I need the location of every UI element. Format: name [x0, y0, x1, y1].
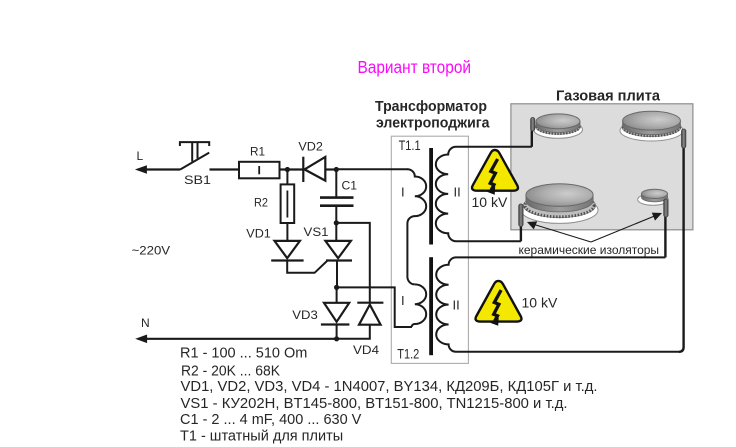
electrode burner3 — [519, 204, 523, 227]
transformer T1.1 core — [429, 148, 433, 245]
electrode burner2 — [682, 129, 686, 148]
svg-text:Трансформатор: Трансформатор — [375, 99, 487, 115]
svg-text:I: I — [401, 293, 405, 308]
wire C1 to VS1 — [335, 206, 337, 241]
resistor R2 — [281, 184, 295, 223]
wire SB1 to R1 — [210, 168, 240, 170]
svg-text:T1.1: T1.1 — [399, 138, 421, 153]
winding T1.2 primary — [412, 284, 427, 327]
svg-text:SB1: SB1 — [184, 173, 211, 187]
svg-text:II: II — [453, 298, 460, 313]
wire node D to T1.2 primary — [337, 287, 412, 327]
electrode burner4 — [664, 199, 668, 217]
thyristor VS1 — [325, 241, 352, 261]
svg-text:VD2: VD2 — [298, 140, 323, 154]
svg-text:C1 - 2 ... 4 mF, 400 ... 630: C1 - 2 ... 4 mF, 400 ... 630 V — [180, 412, 362, 428]
wire node D to VD3 — [336, 287, 338, 302]
arrow to burner4 electrode — [591, 215, 657, 242]
wire VD3 to N rail — [336, 325, 338, 339]
svg-text:II: II — [454, 185, 461, 200]
svg-text:N: N — [141, 316, 150, 330]
wire T1.1 secondary bottom to burner3 electrode — [520, 226, 522, 241]
node junction C — [334, 220, 339, 225]
svg-text:L: L — [137, 149, 144, 163]
svg-text:R1: R1 — [250, 145, 265, 159]
wire N rail — [144, 338, 337, 340]
wire node B to C1 — [335, 170, 337, 198]
svg-text:VD4: VD4 — [353, 343, 379, 357]
wire node B to T1.1 primary — [336, 168, 408, 170]
svg-text:T1 - штатный для плиты: T1 - штатный для плиты — [180, 429, 343, 445]
node junction B — [334, 167, 339, 172]
svg-text:VD3: VD3 — [292, 308, 318, 322]
wire node C to VD4 branch — [336, 223, 370, 303]
gas stove panel — [511, 104, 693, 230]
svg-text:керамические изоляторы: керамические изоляторы — [519, 243, 660, 257]
wire R2 to VD1 — [286, 223, 288, 240]
svg-text:~220V: ~220V — [132, 244, 171, 258]
burner bottom-left — [521, 184, 598, 224]
switch SB1 — [180, 142, 209, 170]
node N arrow — [137, 335, 147, 342]
warning sign 10kV upper — [472, 150, 518, 195]
svg-text:T1.2: T1.2 — [397, 347, 419, 362]
node junction D — [334, 285, 339, 290]
capacitor C1 — [320, 198, 354, 206]
wire VD1 cathode to VS1 gate — [287, 261, 327, 273]
svg-text:I: I — [401, 185, 405, 200]
svg-text:R1 - 100 ... 510 Om: R1 - 100 ... 510 Om — [180, 345, 307, 361]
svg-text:VS1 - КУ202Н, BT145-800, BT15: VS1 - КУ202Н, BT145-800, BT151-800, TN12… — [181, 396, 568, 412]
svg-text:R2 - 20K ... 68K: R2 - 20K ... 68K — [181, 363, 280, 379]
svg-text:Газовая плита: Газовая плита — [556, 88, 661, 105]
svg-text:VD1, VD2, VD3, VD4 - 1N4007,: VD1, VD2, VD3, VD4 - 1N4007, BY134, КД20… — [181, 379, 598, 395]
svg-text:VD1: VD1 — [246, 226, 271, 240]
diode VD2 — [303, 157, 325, 182]
wire L to SB1 — [144, 168, 180, 170]
wire node A to R2 — [286, 170, 288, 185]
node junction E — [334, 336, 339, 341]
node junction A — [285, 167, 290, 172]
wire VD2 to node B — [325, 168, 336, 170]
svg-text:электроподжига: электроподжига — [376, 116, 490, 132]
electrode burner1 — [531, 118, 535, 132]
wire VS1 to node D — [336, 261, 338, 288]
wire VD4 to N rail corner — [337, 325, 370, 339]
arrow to burner3 electrode — [531, 224, 591, 243]
winding T1.1 primary — [407, 169, 426, 284]
wire T1.2 secondary bottom to burner2 electrode — [679, 147, 684, 352]
burner top-left — [534, 114, 583, 138]
svg-text:10 kV: 10 kV — [522, 295, 558, 311]
diode VD3 — [321, 303, 350, 325]
diode VD4 — [357, 303, 383, 325]
transformer box — [391, 136, 468, 363]
warning sign 10kV lower — [476, 281, 522, 326]
transformer T1.2 core — [429, 257, 433, 355]
svg-text:VS1: VS1 — [304, 225, 329, 239]
wire T1.2 secondary top to burner4 electrode — [664, 216, 666, 257]
diode VD1 — [271, 241, 303, 261]
svg-text:R2: R2 — [254, 196, 268, 210]
wire R1 to VD2 — [280, 168, 304, 170]
svg-text:10 kV: 10 kV — [472, 194, 508, 210]
burner bottom-right small — [638, 189, 669, 205]
node L arrow — [136, 166, 146, 173]
winding T1.2 secondary — [436, 257, 679, 351]
winding T1.1 secondary — [436, 147, 532, 242]
svg-text:Вариант второй: Вариант второй — [358, 57, 472, 77]
resistor R1 — [239, 162, 280, 179]
svg-text:C1: C1 — [342, 179, 358, 193]
burner top-right — [620, 111, 683, 141]
wire T1.1 secondary top to burner1 electrode — [531, 128, 533, 147]
